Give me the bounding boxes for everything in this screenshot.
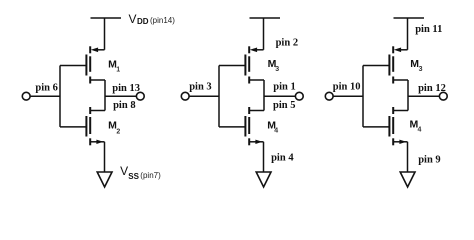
svg-text:(pin7): (pin7) <box>140 171 161 180</box>
svg-text:3: 3 <box>419 66 423 73</box>
svg-text:pin 13: pin 13 <box>112 83 140 94</box>
svg-text:3: 3 <box>275 66 279 73</box>
svg-text:pin 2: pin 2 <box>276 37 298 48</box>
svg-text:pin 10: pin 10 <box>333 82 361 93</box>
svg-text:pin 3: pin 3 <box>189 82 211 93</box>
svg-text:4: 4 <box>274 128 278 135</box>
svg-text:pin 6: pin 6 <box>35 82 57 93</box>
svg-text:1: 1 <box>116 66 120 73</box>
svg-text:4: 4 <box>418 127 422 134</box>
svg-text:pin 8: pin 8 <box>113 100 135 111</box>
svg-text:pin 12: pin 12 <box>418 83 446 94</box>
svg-text:pin 1: pin 1 <box>273 82 295 93</box>
svg-text:pin 9: pin 9 <box>418 154 440 165</box>
svg-text:pin 4: pin 4 <box>271 152 294 163</box>
svg-text:pin 5: pin 5 <box>273 100 295 111</box>
svg-text:V: V <box>120 164 128 178</box>
svg-text:V: V <box>129 12 137 26</box>
svg-text:DD: DD <box>137 17 149 26</box>
svg-text:2: 2 <box>116 128 120 135</box>
svg-text:(pin14): (pin14) <box>150 16 175 25</box>
svg-text:SS: SS <box>128 172 139 181</box>
svg-text:pin 11: pin 11 <box>415 24 442 35</box>
